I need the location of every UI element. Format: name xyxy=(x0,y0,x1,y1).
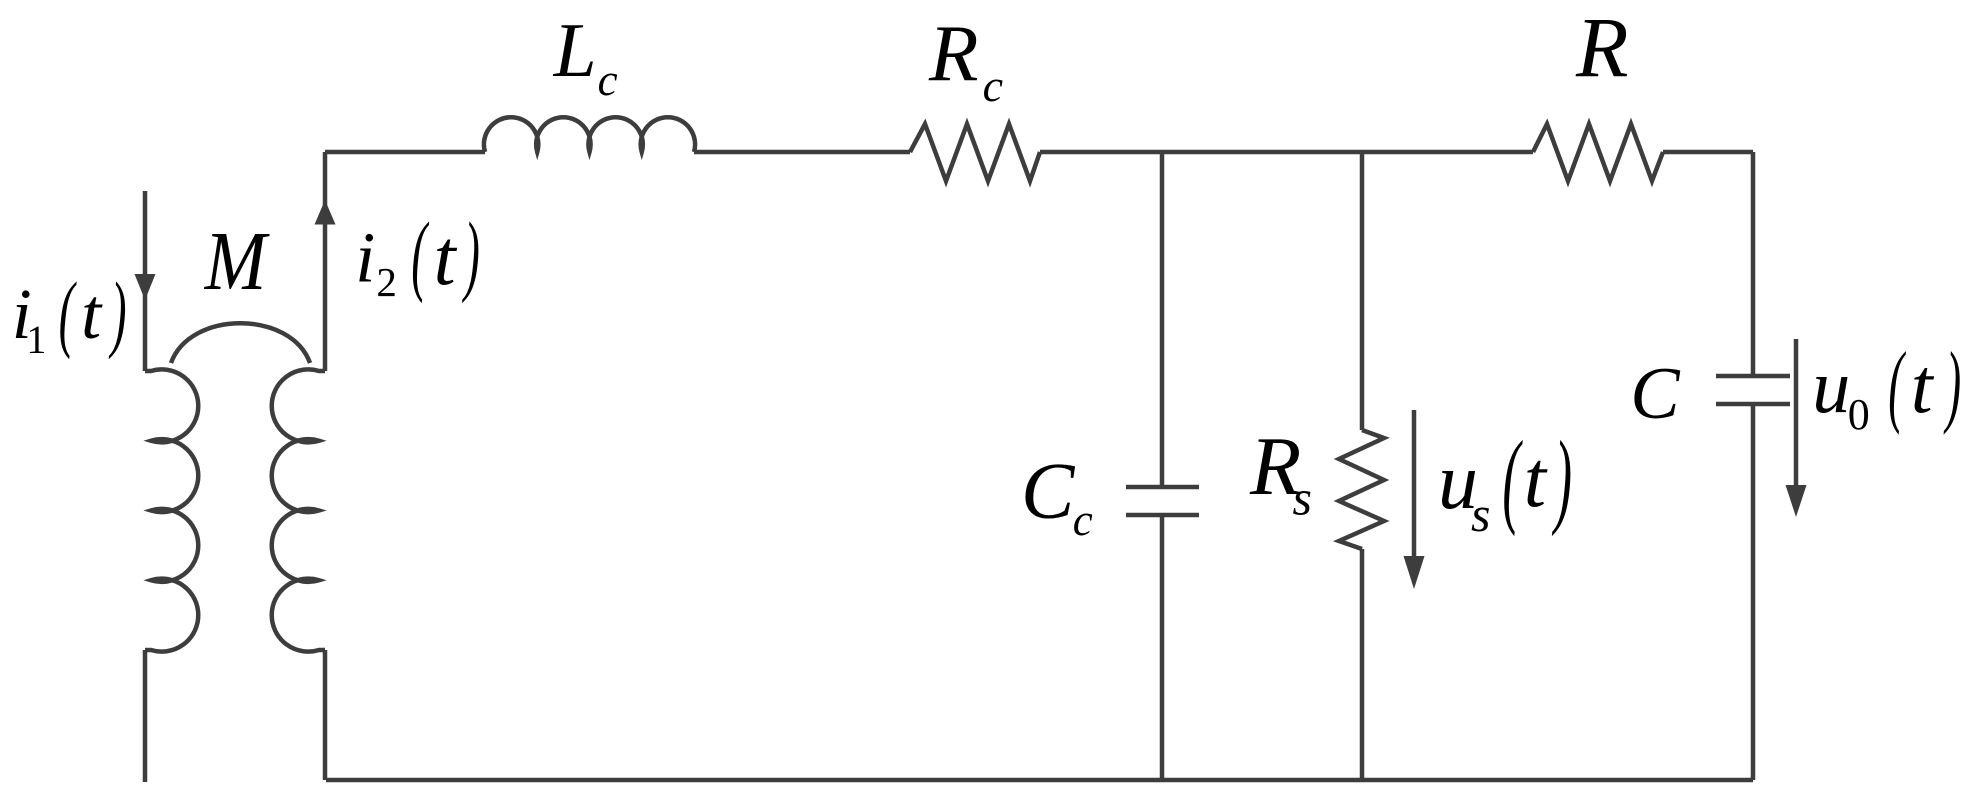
svg-text:): ) xyxy=(1552,420,1572,538)
svg-text:t: t xyxy=(1911,342,1935,429)
svg-text:2: 2 xyxy=(376,259,397,305)
svg-text:0: 0 xyxy=(1848,390,1870,439)
svg-text:R: R xyxy=(928,8,978,98)
svg-text:C: C xyxy=(1630,353,1681,435)
svg-text:(: ( xyxy=(59,265,77,359)
svg-text:L: L xyxy=(553,7,597,93)
svg-text:i: i xyxy=(355,218,375,298)
svg-text:s: s xyxy=(1471,486,1490,542)
svg-text:u: u xyxy=(1812,345,1850,429)
svg-text:t: t xyxy=(81,274,103,354)
svg-text:): ) xyxy=(462,204,480,304)
svg-text:1: 1 xyxy=(26,317,46,362)
svg-text:c: c xyxy=(598,55,618,105)
svg-text:t: t xyxy=(1524,436,1548,524)
svg-text:R: R xyxy=(1575,0,1629,95)
svg-text:(: ( xyxy=(1888,333,1906,435)
svg-text:t: t xyxy=(434,215,458,302)
svg-text:c: c xyxy=(983,60,1003,111)
svg-text:M: M xyxy=(204,215,270,308)
svg-text:c: c xyxy=(1073,495,1093,545)
svg-text:(: ( xyxy=(1502,420,1523,538)
svg-text:s: s xyxy=(1293,470,1312,526)
svg-text:): ) xyxy=(108,265,126,359)
svg-text:C: C xyxy=(1021,448,1076,536)
svg-text:(: ( xyxy=(411,204,429,304)
svg-text:): ) xyxy=(1943,333,1961,435)
